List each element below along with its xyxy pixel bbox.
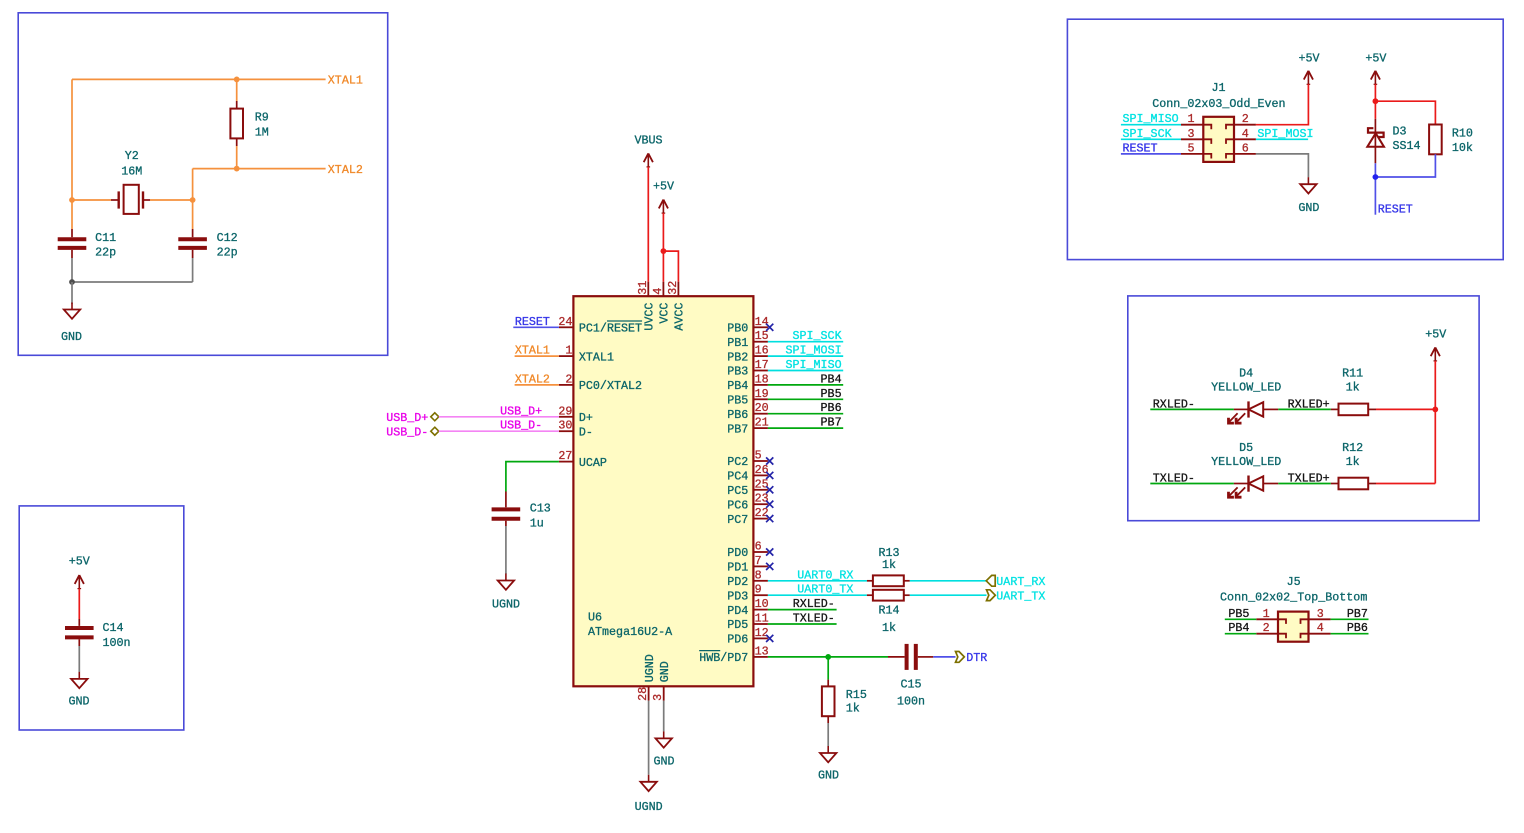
wire PB7 stub (768, 427, 843, 429)
net label SPI_MOSI (U6) (785, 344, 841, 358)
wire TXLED- (LED) (1150, 483, 1234, 485)
svg-text:C11: C11 (95, 231, 116, 245)
net label RXLED- (U6) (793, 597, 835, 611)
ground UGND (C13) (492, 574, 520, 612)
wire XTAL2 vertical to crystal (192, 169, 194, 200)
svg-text:XTAL2: XTAL2 (515, 372, 550, 386)
svg-text:C15: C15 (900, 678, 921, 692)
svg-text:UART_TX: UART_TX (996, 589, 1045, 603)
svg-text:SPI_MOSI: SPI_MOSI (785, 344, 841, 358)
svg-text:100n: 100n (103, 636, 131, 650)
net label PB5 (U6) (821, 387, 842, 401)
wire to GND (71, 282, 73, 304)
wire J1 pin 6 to GND (1256, 154, 1309, 177)
svg-text:PD0: PD0 (727, 546, 748, 560)
svg-text:3: 3 (1317, 607, 1324, 621)
svg-text:PD5: PD5 (727, 618, 748, 632)
node junction +5V/R10 (1373, 98, 1379, 104)
svg-text:USB_D-: USB_D- (500, 419, 542, 433)
svg-text:PB7: PB7 (821, 416, 842, 430)
svg-text:PB5: PB5 (821, 387, 842, 401)
resistor R12 (1331, 441, 1376, 489)
svg-text:27: 27 (558, 449, 572, 463)
svg-text:PD1: PD1 (727, 561, 748, 575)
U6 pin 5 PC2 (727, 449, 768, 470)
wire PB7 (J5) (1331, 618, 1369, 620)
capacitor C13 (492, 492, 551, 531)
net label PB7 (J5) (1347, 607, 1368, 621)
svg-text:PB4: PB4 (1228, 621, 1249, 635)
wire R10 to RESET net (1375, 154, 1435, 177)
svg-text:2: 2 (1242, 112, 1249, 126)
svg-text:UGND: UGND (635, 800, 663, 814)
global label UART_TX (987, 589, 1046, 603)
svg-text:8: 8 (755, 568, 762, 582)
wire RXLED- stub (768, 609, 837, 611)
svg-text:RXLED-: RXLED- (793, 597, 835, 611)
svg-text:RESET: RESET (515, 315, 550, 329)
svg-text:1k: 1k (1346, 381, 1360, 395)
no-connect flag at y=566.4 (766, 563, 773, 570)
resistor R13 (867, 546, 910, 586)
U6 pin 22 PC7 (727, 506, 768, 527)
net label XTAL2 (328, 163, 363, 177)
wire PB4 stub (768, 384, 843, 386)
wire ground bus bottom (72, 258, 193, 282)
wire UART0_TX (768, 594, 867, 596)
svg-text:PC4: PC4 (727, 470, 748, 484)
svg-text:2: 2 (565, 372, 572, 386)
U6 pin 19 PB5 (727, 387, 768, 408)
J5 pin 4 (1301, 621, 1331, 638)
ground UGND (U6) (635, 775, 663, 814)
wire RXLED- (LED) (1150, 408, 1234, 410)
resistor R11 (1331, 367, 1376, 416)
svg-text:AVCC: AVCC (673, 303, 687, 331)
net label RESET (D3) (1378, 203, 1413, 217)
net label XTAL2 (U6) (515, 372, 550, 386)
svg-text:PC5: PC5 (727, 484, 748, 498)
svg-text:PB2: PB2 (727, 350, 748, 364)
wire XTAL1 horizontal (72, 78, 326, 80)
svg-text:GND: GND (1298, 201, 1319, 215)
svg-text:PB4: PB4 (821, 372, 842, 386)
svg-text:4: 4 (651, 288, 665, 295)
U6 pin 21 PB7 (727, 416, 768, 437)
svg-text:7: 7 (755, 554, 762, 568)
U6 pin 24 PC1/RESET (558, 315, 642, 336)
ground GND (J1) (1298, 177, 1319, 215)
wire SPI_MISO (J1) (1121, 124, 1181, 126)
svg-text:PB5: PB5 (727, 394, 748, 408)
svg-text:10: 10 (755, 597, 769, 611)
svg-text:+5V: +5V (1298, 51, 1319, 65)
graphic box: decoupling cap group (19, 506, 184, 730)
svg-text:USB_D+: USB_D+ (386, 411, 428, 425)
svg-text:D+: D+ (579, 411, 593, 425)
svg-text:9: 9 (755, 583, 762, 597)
svg-text:TXLED-: TXLED- (793, 612, 835, 626)
svg-text:+5V: +5V (1425, 328, 1446, 342)
svg-text:VCC: VCC (658, 303, 672, 324)
svg-text:1u: 1u (530, 516, 544, 530)
svg-text:R14: R14 (878, 603, 899, 617)
wire SPI_MOSI (J1) (1256, 138, 1308, 140)
node junction crystal left (69, 197, 75, 203)
J1 pin 6 (1226, 141, 1256, 158)
wire SPI_MOSI stub (768, 355, 843, 357)
U6 pin 13 HWB/PD7 (699, 644, 768, 665)
U6 pin 8 PD2 (727, 568, 768, 589)
svg-text:PB7: PB7 (1347, 607, 1368, 621)
power +5V (D3/R10) (1365, 51, 1386, 84)
svg-text:24: 24 (558, 315, 572, 329)
svg-text:GND: GND (653, 755, 674, 769)
U6 pin 12 PD6 (727, 626, 768, 647)
wire R12 to +5V rail (1376, 483, 1435, 485)
no-connect flag at y=489.8 (766, 486, 773, 493)
wire PB4 (J5) (1225, 633, 1257, 635)
svg-text:PB0: PB0 (727, 322, 748, 336)
J1 pin 5 (1181, 141, 1211, 158)
svg-text:4: 4 (1317, 621, 1324, 635)
svg-text:XTAL1: XTAL1 (579, 350, 614, 364)
wire XTAL2 horizontal (193, 168, 326, 170)
net label XTAL1 (328, 74, 363, 88)
net label TXLED- (LED) (1153, 472, 1195, 486)
net label PB4 (U6) (821, 372, 842, 386)
svg-text:C12: C12 (217, 231, 238, 245)
wire +5V branch to pin 32 (663, 251, 678, 282)
svg-text:PD6: PD6 (727, 633, 748, 647)
net label XTAL1 (U6) (515, 344, 550, 358)
power +5V (J1) (1298, 51, 1319, 84)
global label DTR (956, 651, 988, 665)
wire TXLED+ (LED) (1278, 483, 1331, 485)
svg-text:PB6: PB6 (727, 408, 748, 422)
net label RXLED- (LED) (1153, 397, 1195, 411)
svg-text:R9: R9 (255, 111, 269, 125)
svg-text:28: 28 (636, 687, 650, 701)
U6 pin 20 PB6 (727, 401, 768, 422)
net label PB5 (J5) (1228, 607, 1249, 621)
svg-text:12: 12 (755, 626, 769, 640)
svg-text:30: 30 (558, 419, 572, 433)
net label RXLED+ (1288, 397, 1330, 411)
svg-text:PC6: PC6 (727, 498, 748, 512)
net label TXLED- (U6) (793, 612, 835, 626)
svg-text:1: 1 (1263, 607, 1270, 621)
svg-text:16: 16 (755, 344, 769, 358)
wire +5V branch to R10 (1375, 101, 1435, 124)
node junction ground (69, 279, 75, 285)
J5 pin 2 (1256, 621, 1286, 638)
svg-text:YELLOW_LED: YELLOW_LED (1211, 455, 1281, 469)
J1 pin 4 (1226, 127, 1256, 144)
ground GND (U6) (653, 731, 674, 768)
svg-text:UGND: UGND (492, 598, 520, 612)
svg-text:18: 18 (755, 372, 769, 386)
U6 pin 4 VCC (651, 282, 672, 324)
svg-text:1k: 1k (882, 558, 896, 572)
svg-text:TXLED-: TXLED- (1153, 472, 1195, 486)
wire USB_D- to pin 30 (439, 430, 559, 432)
wire R11 to +5V rail (1376, 408, 1435, 410)
net label PB7 (U6) (821, 416, 842, 430)
ground GND (R15) (818, 746, 839, 782)
wire crystal row right (150, 199, 193, 201)
svg-text:2: 2 (1263, 621, 1270, 635)
wire PB5 stub (768, 398, 843, 400)
no-connect flag at y=475.4 (766, 472, 773, 479)
svg-text:5: 5 (1187, 141, 1194, 155)
LED D5 YELLOW_LED (1211, 441, 1281, 497)
power +5V (C14) (69, 555, 90, 589)
svg-text:16M: 16M (121, 164, 142, 178)
wire D3 to RESET label (1374, 163, 1376, 214)
svg-text:PD3: PD3 (727, 589, 748, 603)
net label RESET (J1) (1123, 141, 1158, 155)
J1 pin 3 (1181, 127, 1211, 144)
svg-text:1k: 1k (882, 621, 896, 635)
svg-text:RXLED+: RXLED+ (1288, 397, 1330, 411)
capacitor C15 (888, 644, 933, 709)
resistor R9 (230, 79, 268, 168)
wire PD7 to R15 (827, 657, 829, 680)
svg-text:4: 4 (1242, 127, 1249, 141)
power +5V (LEDs) (1425, 328, 1446, 361)
svg-text:PB7: PB7 (727, 422, 748, 436)
svg-text:VBUS: VBUS (634, 134, 662, 148)
connector J1 body (1152, 81, 1285, 162)
global label UART_RX (986, 575, 1045, 589)
svg-text:UART_RX: UART_RX (996, 575, 1045, 589)
net label PB6 (J5) (1347, 621, 1368, 635)
svg-text:1M: 1M (255, 126, 269, 140)
svg-text:SPI_SCK: SPI_SCK (1123, 127, 1172, 141)
svg-text:29: 29 (558, 404, 572, 418)
svg-text:PC0/XTAL2: PC0/XTAL2 (579, 379, 642, 393)
net label SPI_MISO (U6) (785, 358, 841, 372)
svg-text:R11: R11 (1342, 367, 1363, 381)
svg-text:U6: U6 (588, 611, 602, 625)
svg-text:3: 3 (1187, 127, 1194, 141)
net label SPI_MISO (J1) (1123, 112, 1179, 126)
svg-text:GND: GND (61, 330, 82, 344)
svg-text:1: 1 (565, 344, 572, 358)
no-connect flag at y=504.2 (766, 501, 773, 508)
svg-text:D5: D5 (1239, 441, 1253, 455)
wire PB5 (J5) (1225, 618, 1257, 620)
svg-text:XTAL2: XTAL2 (328, 163, 363, 177)
U6 pin 17 PB3 (727, 358, 768, 379)
wire XTAL2 to pin 2 (515, 384, 559, 386)
svg-text:13: 13 (755, 644, 769, 658)
svg-text:PC7: PC7 (727, 513, 748, 527)
node junction crystal right (190, 197, 196, 203)
diode D3 SS14 (1367, 119, 1420, 164)
capacitor C12 (178, 200, 237, 259)
U6 pin 25 PC5 (727, 477, 768, 498)
op-amp U6 ATmega16U2-A body (573, 296, 753, 686)
svg-text:PD4: PD4 (727, 604, 748, 618)
net label RESET (U6) (515, 315, 550, 329)
U6 pin 30 D- (558, 419, 593, 440)
U6 pin 32 AVCC (666, 281, 687, 331)
svg-text:5: 5 (755, 449, 762, 463)
svg-text:YELLOW_LED: YELLOW_LED (1211, 381, 1281, 395)
svg-text:PB6: PB6 (821, 401, 842, 415)
svg-text:GND: GND (818, 768, 839, 782)
U6 pin 3 GND (651, 661, 672, 701)
svg-text:1: 1 (1187, 112, 1194, 126)
graphic box: LED group (1128, 296, 1479, 521)
J1 pin 2 (1226, 112, 1256, 129)
svg-text:GND: GND (68, 694, 89, 708)
capacitor C14 (65, 619, 131, 650)
svg-text:USB_D-: USB_D- (386, 425, 428, 439)
U6 pin 7 PD1 (727, 554, 768, 575)
graphic box: crystal oscillator group (18, 13, 388, 356)
U6 pin 10 PD4 (727, 597, 768, 618)
wire R15 to GND (827, 723, 829, 746)
svg-text:D-: D- (579, 425, 593, 439)
wire +5V to D3 (1374, 84, 1376, 119)
net label USB_D+ (wire) (500, 404, 542, 418)
no-connect flag at y=461 (766, 457, 773, 464)
wire RXLED+ (LED) (1278, 408, 1331, 410)
wire UCAP to C13 (506, 462, 559, 492)
resistor R10 (1429, 125, 1473, 156)
svg-text:PB5: PB5 (1228, 607, 1249, 621)
U6 pin 14 PB0 (727, 315, 768, 336)
node junction RESET (1373, 174, 1379, 180)
wire R14 to UART_TX (910, 594, 987, 596)
svg-text:1k: 1k (846, 702, 860, 716)
wire pin 28 to UGND (648, 701, 650, 775)
U6 pin 26 PC4 (727, 463, 768, 484)
svg-text:D3: D3 (1393, 124, 1407, 138)
net label USB_D- (wire) (500, 419, 542, 433)
U6 pin 29 D+ (558, 404, 593, 425)
svg-text:UART0_TX: UART0_TX (797, 583, 853, 597)
svg-text:RESET: RESET (1123, 141, 1158, 155)
node junction XTAL2/R9 (234, 166, 240, 172)
wire +5V to C14 (78, 589, 80, 619)
U6 pin 28 UGND (636, 654, 657, 701)
svg-text:XTAL1: XTAL1 (515, 344, 550, 358)
no-connect flag at y=518.6 (766, 515, 773, 522)
svg-text:SPI_MISO: SPI_MISO (785, 358, 841, 372)
svg-text:Conn_02x03_Odd_Even: Conn_02x03_Odd_Even (1152, 97, 1285, 111)
svg-text:SPI_SCK: SPI_SCK (792, 329, 841, 343)
capacitor C11 (58, 200, 116, 259)
svg-text:C14: C14 (103, 621, 124, 635)
svg-text:R15: R15 (846, 688, 867, 702)
svg-text:UCAP: UCAP (579, 456, 607, 470)
svg-text:20: 20 (755, 401, 769, 415)
svg-text:RESET: RESET (1378, 203, 1413, 217)
svg-text:XTAL1: XTAL1 (328, 74, 363, 88)
svg-text:+5V: +5V (653, 180, 674, 194)
U6 pin 11 PD5 (727, 612, 768, 633)
svg-text:SPI_MISO: SPI_MISO (1123, 112, 1179, 126)
wire UART0_RX (768, 580, 867, 582)
node junction PD7/R15 (825, 654, 831, 660)
no-connect flag at y=638.4 (766, 635, 773, 642)
wire PB6 stub (768, 413, 843, 415)
wire C15 to DTR (933, 656, 955, 658)
wire RESET (J1) (1121, 153, 1181, 155)
net label SPI_SCK (U6) (792, 329, 841, 343)
U6 pin 2 PC0/XTAL2 (559, 372, 642, 393)
svg-text:+5V: +5V (69, 555, 90, 569)
wire VBUS to pin 31 (647, 167, 649, 282)
svg-text:PC2: PC2 (727, 455, 748, 469)
svg-text:32: 32 (666, 281, 680, 295)
wire TXLED- stub (768, 623, 837, 625)
svg-text:GND: GND (658, 661, 672, 682)
node junction LED rail (1432, 407, 1438, 413)
svg-text:ATmega16U2-A: ATmega16U2-A (588, 625, 673, 639)
J5 pin 3 (1301, 607, 1331, 624)
svg-text:Y2: Y2 (125, 149, 139, 163)
svg-text:RXLED-: RXLED- (1153, 397, 1195, 411)
svg-text:14: 14 (755, 315, 769, 329)
svg-text:17: 17 (755, 358, 769, 372)
svg-text:UVCC: UVCC (643, 303, 657, 331)
svg-text:SS14: SS14 (1393, 139, 1421, 153)
wire HWB/PD7 to C15 (768, 656, 888, 658)
svg-text:6: 6 (1242, 141, 1249, 155)
svg-text:PB4: PB4 (727, 379, 748, 393)
wire +5V to pin 4 (662, 213, 664, 282)
hierarchical label USB_D- (386, 425, 439, 439)
U6 pin 18 PB4 (727, 372, 768, 393)
svg-text:R10: R10 (1452, 127, 1473, 141)
svg-text:DTR: DTR (966, 651, 987, 665)
svg-text:Conn_02x02_Top_Bottom: Conn_02x02_Top_Bottom (1220, 591, 1367, 605)
wire SPI_SCK stub (768, 341, 843, 343)
svg-text:PB3: PB3 (727, 365, 748, 379)
svg-text:3: 3 (651, 694, 665, 701)
U6 pin 6 PD0 (727, 540, 768, 561)
svg-text:10k: 10k (1452, 141, 1473, 155)
U6 pin 15 PB1 (727, 329, 768, 350)
J5 pin 1 (1256, 607, 1286, 624)
wire PB6 (J5) (1331, 633, 1369, 635)
ground GND (crystal) (61, 303, 82, 345)
net label TXLED+ (1288, 472, 1330, 486)
J1 pin 1 (1181, 112, 1211, 129)
wire J1 pin 2 to +5V (1256, 84, 1309, 124)
U6 pin 27 UCAP (558, 449, 607, 470)
net label PB4 (J5) (1228, 621, 1249, 635)
wire C14 to GND (78, 646, 80, 672)
graphic box: ICSP connector group (1067, 19, 1503, 259)
svg-text:1k: 1k (1346, 455, 1360, 469)
crystal Y2 (111, 149, 150, 214)
svg-text:USB_D+: USB_D+ (500, 404, 542, 418)
svg-text:J1: J1 (1211, 81, 1225, 95)
svg-text:22p: 22p (217, 245, 238, 259)
wire SPI_MISO stub (768, 370, 843, 372)
svg-text:HWB/PD7: HWB/PD7 (699, 651, 748, 665)
wire C13 to UGND (505, 526, 507, 574)
net label UART0_RX (797, 568, 853, 582)
svg-text:J5: J5 (1287, 575, 1301, 589)
svg-text:PB6: PB6 (1347, 621, 1368, 635)
